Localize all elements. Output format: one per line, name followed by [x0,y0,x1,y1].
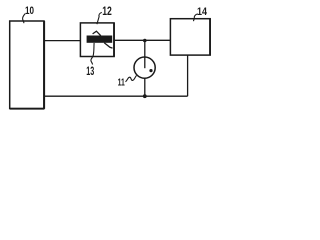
svg-text:14: 14 [197,6,208,18]
svg-text:12: 12 [102,6,112,18]
svg-text:11: 11 [118,77,125,89]
svg-text:13: 13 [86,66,94,78]
svg-text:10: 10 [25,5,34,17]
